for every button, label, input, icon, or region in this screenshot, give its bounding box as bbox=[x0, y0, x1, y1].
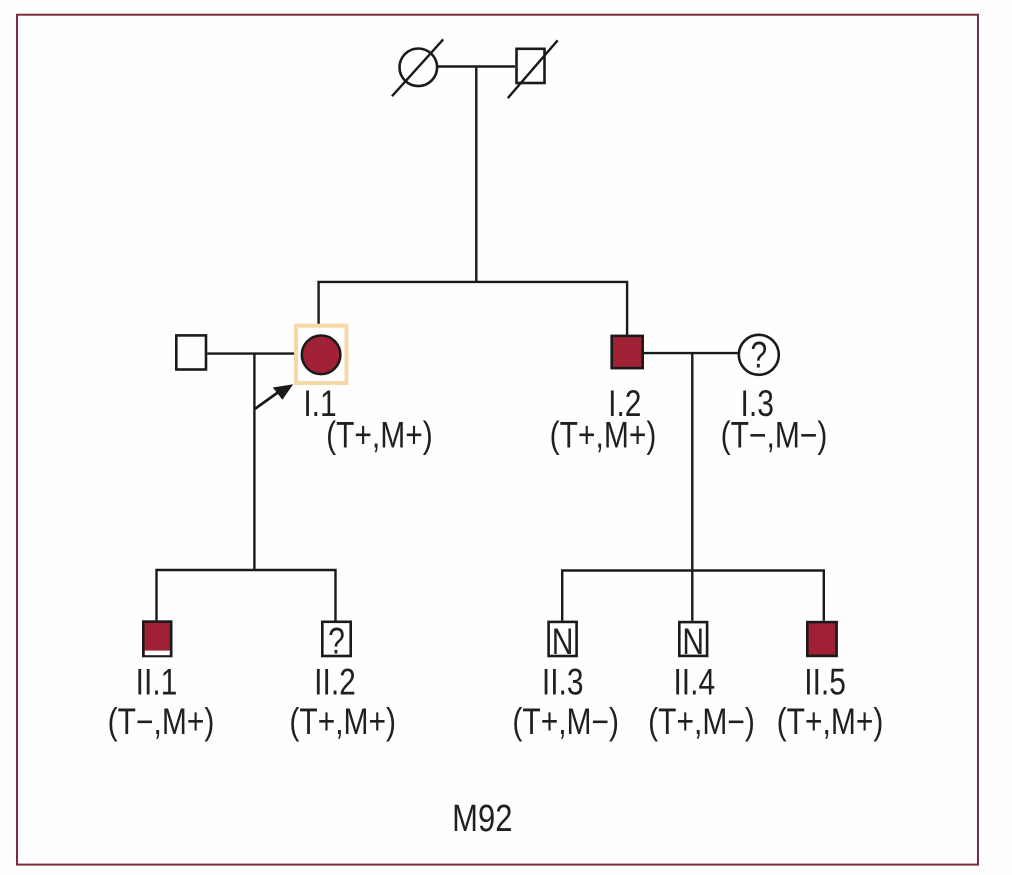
svg-text:(T+,M+): (T+,M+) bbox=[289, 702, 396, 742]
svg-text:(T+,M+): (T+,M+) bbox=[777, 702, 884, 742]
svg-text:(T−,M+): (T−,M+) bbox=[108, 702, 215, 742]
svg-text:?: ? bbox=[750, 336, 767, 376]
svg-text:N: N bbox=[552, 622, 574, 662]
svg-text:(T+,M+): (T+,M+) bbox=[550, 416, 657, 456]
svg-text:N: N bbox=[682, 622, 704, 662]
svg-text:(T+,M−): (T+,M−) bbox=[512, 702, 619, 742]
svg-text:?: ? bbox=[328, 622, 345, 662]
svg-text:II.2: II.2 bbox=[314, 663, 356, 703]
svg-text:(T+,M−): (T+,M−) bbox=[648, 702, 755, 742]
svg-text:II.3: II.3 bbox=[542, 663, 584, 703]
svg-text:M92: M92 bbox=[452, 798, 512, 840]
svg-text:II.5: II.5 bbox=[804, 663, 846, 703]
svg-text:(T−,M−): (T−,M−) bbox=[721, 416, 828, 456]
svg-text:II.4: II.4 bbox=[673, 663, 715, 703]
svg-text:II.1: II.1 bbox=[136, 663, 178, 703]
svg-text:(T+,M+): (T+,M+) bbox=[326, 416, 433, 456]
